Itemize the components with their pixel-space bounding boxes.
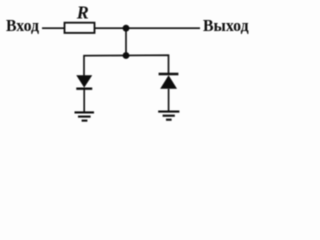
wire right diode to ground [168,89,170,111]
wire left diode to ground [83,89,85,112]
wire input to resistor [42,27,64,29]
resistor R [65,23,95,33]
ground (right) [158,112,179,120]
ground (left) [75,112,95,120]
diode VD1 (left, anode up) [76,75,92,88]
junction lower node [123,52,130,59]
wire resistor to output [95,27,201,29]
wire lower horizontal bus [84,55,169,75]
junction top node [123,25,130,32]
diode VD2 (right, anode down) [159,74,179,89]
svg-text:Вход: Вход [6,16,40,35]
svg-text:R: R [76,3,89,23]
wire vertical from top node to lower node [125,28,127,55]
svg-text:Выход: Выход [203,16,249,35]
